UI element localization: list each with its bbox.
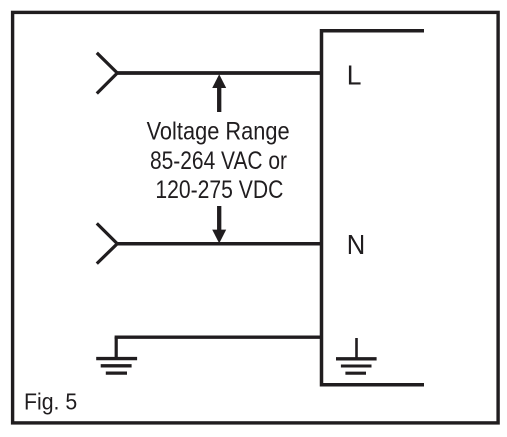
svg-text:N: N xyxy=(347,229,366,260)
input chevron (N lead) xyxy=(97,223,118,263)
wire N (neutral input to terminal N) xyxy=(117,242,322,246)
wire L (line input to terminal L) xyxy=(117,71,322,75)
svg-text:Voltage Range: Voltage Range xyxy=(147,118,290,146)
down arrow (voltage range pointer to N wire) xyxy=(217,206,221,231)
ground stem (device internal ground) xyxy=(355,338,358,359)
ground symbol (device internal ground bars) xyxy=(336,359,377,373)
svg-text:L: L xyxy=(347,59,362,90)
ground symbol (left earth bars) xyxy=(96,359,137,374)
svg-text:Fig. 5: Fig. 5 xyxy=(24,389,77,415)
ground stem (left earth) xyxy=(115,337,118,359)
up arrow (voltage range pointer to L wire) xyxy=(217,86,221,112)
svg-text:120-275 VDC: 120-275 VDC xyxy=(155,176,283,204)
input chevron (L lead) xyxy=(97,53,118,94)
device box U1 (open right side) xyxy=(322,31,425,385)
svg-text:85-264 VAC or: 85-264 VAC or xyxy=(150,147,287,175)
ground wire (from earth to device box) xyxy=(115,336,322,339)
